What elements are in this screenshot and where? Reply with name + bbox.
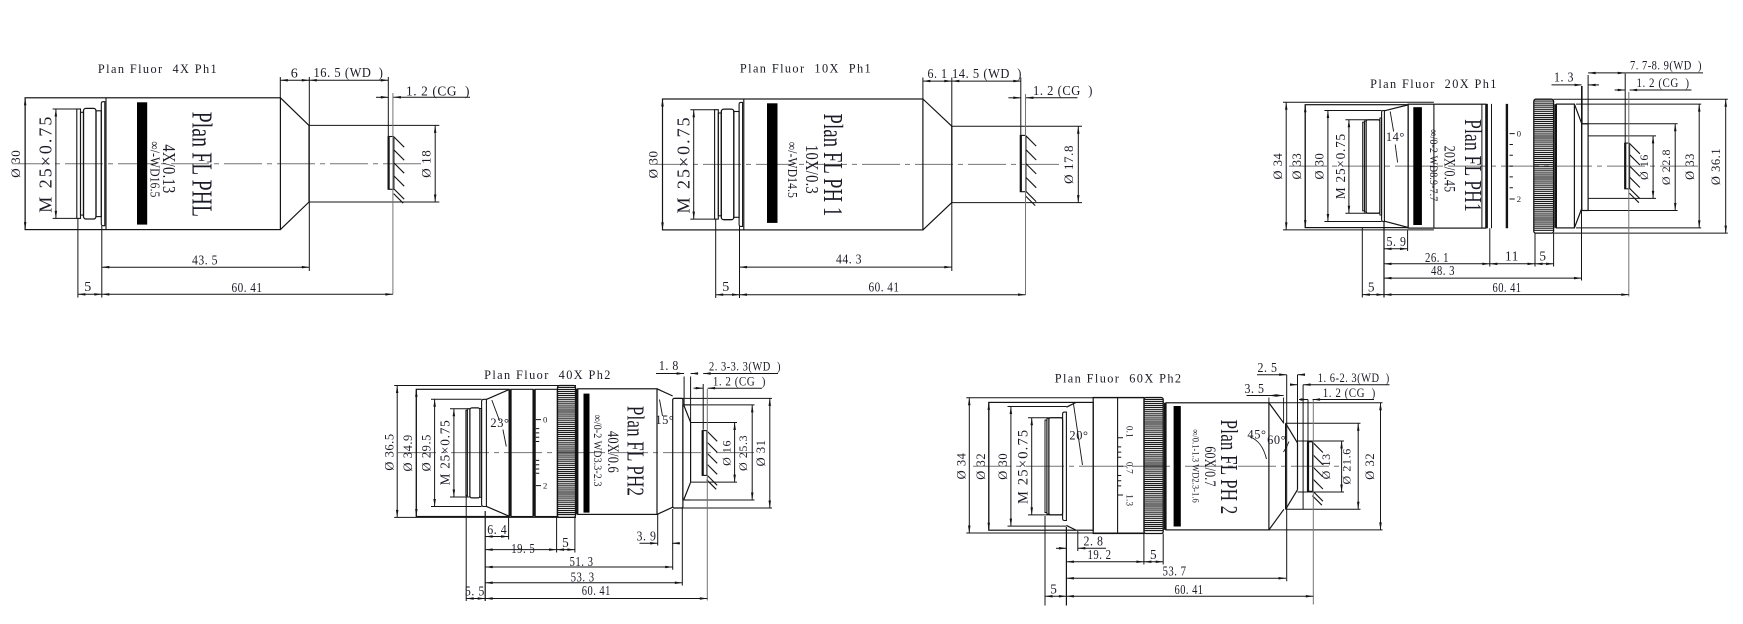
svg-text:5: 5 — [84, 280, 92, 295]
dimension 11 — [1490, 248, 1535, 265]
diameter 36.5 extension lines — [394, 386, 576, 518]
svg-text:43. 5: 43. 5 — [192, 254, 218, 269]
svg-text:Ø 34: Ø 34 — [955, 453, 969, 480]
svg-text:Plan FL PH1: Plan FL PH1 — [1459, 119, 1487, 212]
20 degree label and leader — [1069, 404, 1088, 465]
15 degree front cone — [657, 389, 673, 515]
cover glass extension gray 60X — [1312, 399, 1314, 605]
svg-text:∞/0-2 WD3.3-2.3: ∞/0-2 WD3.3-2.3 — [591, 415, 604, 487]
svg-text:19. 5: 19. 5 — [511, 541, 535, 556]
front lens diameter extension lines — [309, 125, 439, 202]
dimension 3.5 — [1245, 381, 1284, 423]
diameter 34 dimension — [1271, 102, 1287, 230]
centerline 4X — [12, 163, 425, 165]
svg-text:Ø 17.8: Ø 17.8 — [1061, 145, 1076, 184]
svg-text:60. 41: 60. 41 — [232, 281, 263, 296]
svg-text:Plan FL PH2: Plan FL PH2 — [622, 406, 647, 496]
svg-text:1. 8: 1. 8 — [659, 358, 679, 373]
dimension 60.41 20X — [1384, 280, 1629, 296]
diameter 32 dimension front — [1363, 403, 1382, 530]
svg-text:60°: 60° — [1267, 433, 1286, 447]
svg-text:1. 3: 1. 3 — [1554, 70, 1574, 85]
40X front barrel — [578, 389, 657, 515]
svg-text:5. 5: 5. 5 — [465, 584, 485, 599]
15 degree label and leader — [655, 400, 674, 428]
svg-text:Plan Fluor 60X Ph2: Plan Fluor 60X Ph2 — [1055, 371, 1183, 385]
svg-text:3. 9: 3. 9 — [637, 529, 657, 544]
svg-text:Ø 30: Ø 30 — [8, 150, 23, 178]
diameter 33 front dimension — [1683, 104, 1701, 228]
diameter 22.8 extension lines — [1582, 124, 1678, 211]
40X tip face — [690, 423, 692, 483]
svg-text:Ø 21.6: Ø 21.6 — [1340, 448, 1354, 484]
barrel inner face line 10X — [743, 99, 745, 230]
cover glass 10X — [1020, 135, 1022, 191]
cap face long extension 60X — [1286, 375, 1288, 582]
svg-text:7. 7-8. 9(WD ): 7. 7-8. 9(WD ) — [1630, 59, 1702, 73]
dimension 6.1 taper length — [923, 67, 952, 82]
dimension 14.5 WD — [952, 66, 1022, 82]
svg-text:M 25×0.75: M 25×0.75 — [36, 115, 56, 213]
svg-text:11: 11 — [1505, 248, 1519, 263]
svg-text:60. 41: 60. 41 — [1175, 582, 1204, 597]
diameter 34 extension lines — [1283, 102, 1434, 230]
scale section 40X — [535, 389, 557, 516]
mounting flange ring — [739, 102, 743, 226]
thread rings 40X — [466, 408, 482, 498]
dimension 60.41 40X — [485, 583, 707, 600]
20X rear barrel body — [1305, 105, 1408, 228]
front lens diameter extension lines 10X — [952, 126, 1082, 202]
tip extension 40X — [690, 377, 692, 423]
dimension 5 thread length 10X — [716, 220, 740, 299]
svg-text:Plan FL PH 2: Plan FL PH 2 — [1215, 420, 1240, 515]
dimension 19.5 — [485, 541, 556, 556]
extension verticals bottom 20X — [1362, 222, 1553, 298]
svg-text:20X/0.45: 20X/0.45 — [1440, 146, 1457, 193]
svg-text:40X/0.6: 40X/0.6 — [603, 431, 621, 473]
centerline 20X — [1289, 165, 1699, 167]
svg-text:Ø 30: Ø 30 — [1313, 153, 1327, 180]
svg-text:Plan Fluor 10X Ph1: Plan Fluor 10X Ph1 — [740, 62, 872, 76]
10X main barrel body — [663, 99, 923, 230]
dimension 7.7-8.9 WD — [1588, 59, 1703, 75]
svg-text:Ø 30: Ø 30 — [996, 453, 1010, 480]
cover glass extension line gray 10X — [1025, 94, 1027, 295]
dimension 5 knurl 40X — [557, 535, 575, 551]
thread rear step ring — [77, 109, 84, 218]
20X color code band — [1413, 107, 1422, 225]
thread knurled locking ring — [84, 108, 97, 219]
svg-text:45°: 45° — [1247, 427, 1266, 441]
centerline 60X — [973, 465, 1345, 467]
dimension 1.2 CG 20X — [1615, 76, 1692, 91]
cap rear extension 40X — [683, 377, 685, 405]
diameter 21.6 dimension — [1340, 423, 1360, 509]
4X nose front face — [308, 125, 310, 202]
diameter 33 front extension lines — [1576, 104, 1701, 228]
dimension 6 taper length — [280, 66, 309, 81]
M25x0.75 thread extension lines — [690, 110, 715, 219]
20X nose tip cylinder — [1582, 124, 1588, 211]
svg-text:Ø 33: Ø 33 — [1683, 153, 1697, 180]
svg-text:19. 2: 19. 2 — [1088, 547, 1112, 562]
dimension 5 knurl 60X — [1144, 547, 1163, 563]
thread front ring — [96, 111, 101, 217]
centerline 10X — [650, 163, 1062, 165]
svg-text:5: 5 — [562, 535, 569, 550]
20X front barrel section — [1556, 104, 1574, 228]
60X tip face — [1297, 443, 1299, 490]
diameter 30 dimension 20X — [1313, 111, 1330, 222]
diameter 29.5 extension lines — [431, 399, 482, 506]
svg-text:Ø 22.8: Ø 22.8 — [1659, 149, 1673, 185]
svg-text:0: 0 — [543, 415, 548, 425]
svg-text:Ø 25.3: Ø 25.3 — [736, 435, 750, 471]
svg-text:4X/0.13: 4X/0.13 — [159, 144, 180, 193]
mid barrel step line — [1433, 104, 1435, 228]
60 degree cone — [1286, 423, 1298, 509]
shoulder extension line — [279, 77, 281, 98]
diameter 25.3 dimension — [736, 405, 753, 500]
svg-text:2: 2 — [1517, 194, 1522, 204]
diameter 21.6 extension lines — [1286, 423, 1361, 509]
dimension 5 rear 60X — [1045, 582, 1066, 598]
dimension 48.3 — [1384, 263, 1582, 279]
20X mid barrel — [1408, 104, 1486, 228]
front lens dia 16 extension lines — [1588, 136, 1656, 199]
knurled focus ring 20X — [1534, 99, 1554, 233]
diameter 25.3 extension lines — [684, 405, 755, 500]
svg-text:2. 3-3. 3(WD ): 2. 3-3. 3(WD ) — [709, 360, 781, 374]
knurled focus ring 40X — [558, 386, 576, 518]
working distance extension line — [387, 77, 389, 136]
svg-text:1. 2 (CG ): 1. 2 (CG ) — [406, 84, 470, 99]
dimension 2.5 — [1257, 360, 1305, 376]
flange ring 40X — [482, 399, 487, 506]
svg-text:Ø 16: Ø 16 — [719, 440, 733, 466]
svg-text:2: 2 — [543, 481, 548, 491]
svg-text:6: 6 — [291, 66, 299, 81]
svg-text:5: 5 — [1150, 547, 1157, 562]
dimension 6.4 — [485, 522, 508, 538]
svg-text:M 25×0.75: M 25×0.75 — [673, 115, 693, 213]
svg-text:Ø 29.5: Ø 29.5 — [419, 434, 433, 471]
svg-text:0: 0 — [1517, 129, 1522, 139]
CG left extension 40X — [702, 384, 704, 430]
M25x0.75 dimension — [36, 109, 58, 218]
10X nose front face — [951, 126, 953, 202]
dimension 5 knurl — [1535, 248, 1554, 265]
svg-text:Ø 32: Ø 32 — [1363, 453, 1377, 480]
40X collar section — [511, 389, 533, 516]
dimension 44.3 — [740, 227, 952, 299]
diameter 30 dimension 60X — [996, 407, 1012, 527]
60X mid barrel sections — [1093, 398, 1144, 534]
cover glass 60X — [1307, 442, 1309, 492]
diameter 36.1 dimension — [1709, 99, 1727, 233]
diameter 17.8 dimension — [1061, 126, 1079, 202]
extension verticals bottom 60X — [1045, 516, 1163, 606]
thread rear step ring — [715, 110, 722, 219]
svg-text:Ø 34.9: Ø 34.9 — [401, 434, 415, 471]
svg-text:Ø 36.5: Ø 36.5 — [382, 433, 396, 470]
dimension 1.8 — [656, 358, 698, 375]
diameter 30 dimension 10X — [646, 99, 664, 230]
M25x0.75 dimension — [673, 110, 695, 219]
diameter 16 dimension 40X — [719, 423, 736, 483]
60X front barrel — [1166, 403, 1269, 530]
M25 dimension 20X — [1333, 120, 1380, 213]
svg-text:60. 41: 60. 41 — [869, 281, 900, 296]
svg-text:1. 6-2. 3(WD ): 1. 6-2. 3(WD ) — [1318, 371, 1390, 385]
diameter 34.9 dimension — [401, 389, 418, 516]
dimension 1.2 CG 40X — [694, 375, 766, 390]
thread rings 60X — [1045, 418, 1063, 515]
svg-text:3. 5: 3. 5 — [1245, 381, 1265, 396]
14 degree expansion cone — [1384, 105, 1408, 227]
dimension 16.5 WD — [309, 65, 388, 82]
dimension 1.2 CG 60X — [1299, 386, 1376, 401]
cover glass extension gray 40X — [706, 389, 708, 601]
diameter 31 extension lines — [675, 398, 772, 508]
60X rear barrel — [989, 402, 1093, 530]
40X rear barrel — [416, 389, 509, 516]
diameter 16 dimension — [1637, 136, 1654, 199]
diameter 18 dimension — [418, 125, 436, 202]
dimension 53.7 — [1066, 563, 1286, 579]
svg-text:5: 5 — [1539, 248, 1546, 263]
svg-text:M 25×0.75: M 25×0.75 — [1016, 429, 1032, 504]
svg-text:16. 5 (WD ): 16. 5 (WD ) — [314, 65, 384, 80]
dimension 2.3-3.3 WD — [703, 360, 781, 375]
dimension 2.8 — [1056, 533, 1106, 549]
cone end boundary 40X — [509, 389, 511, 516]
svg-text:60. 41: 60. 41 — [1493, 280, 1522, 295]
svg-text:5: 5 — [1050, 582, 1057, 597]
nose tip extension line 10X — [951, 78, 953, 272]
knurl front boundary 40X — [576, 389, 578, 515]
diameter 32 dimension rear — [974, 402, 990, 530]
shoulder extension line 10X — [922, 78, 924, 100]
diameter 32 extension lines front — [1269, 403, 1383, 530]
45 degree label and arc — [1247, 427, 1266, 459]
correction collar scale labels — [543, 415, 548, 491]
svg-text:Ø 33: Ø 33 — [1290, 153, 1304, 180]
front lens dia 13 extension lines — [1298, 441, 1345, 492]
dimension 1.6-2.3 WD — [1290, 371, 1390, 386]
working distance right extension 60X — [1302, 385, 1304, 510]
CG left extension 60X — [1307, 400, 1309, 442]
23 degree expansion cone — [486, 390, 509, 517]
diameter 30 dimension — [8, 98, 26, 230]
svg-text:Ø 32: Ø 32 — [974, 453, 988, 480]
correction collar scale ticks — [1510, 134, 1515, 199]
dimension 43.5 — [102, 226, 309, 298]
cover glass extension gray 20X — [1628, 92, 1630, 297]
diameter 22.8 dimension — [1659, 124, 1677, 211]
dimension 1.2 CG 10X — [1008, 83, 1093, 99]
svg-text:Ø 18: Ø 18 — [418, 150, 433, 178]
svg-text:∞/-WD14.5: ∞/-WD14.5 — [785, 142, 800, 198]
diameter 36.1 extension lines — [1554, 99, 1728, 233]
40X front cap — [683, 405, 691, 500]
svg-text:M 25×0.75: M 25×0.75 — [1333, 133, 1348, 199]
dimension 1.2 CG — [376, 84, 470, 99]
dimension 60.41 parfocal — [102, 281, 393, 296]
barrel inner face line — [105, 98, 107, 230]
svg-text:0.7: 0.7 — [1124, 462, 1134, 474]
svg-text:1. 2 (CG ): 1. 2 (CG ) — [1323, 386, 1376, 400]
svg-text:Plan Fluor 40X Ph2: Plan Fluor 40X Ph2 — [484, 368, 612, 382]
svg-text:Ø 36.1: Ø 36.1 — [1709, 148, 1723, 185]
svg-text:6. 1: 6. 1 — [928, 67, 948, 82]
svg-text:60. 41: 60. 41 — [582, 583, 611, 598]
extension verticals bottom 40X — [466, 496, 682, 601]
14 degree label and leader — [1386, 112, 1405, 163]
svg-text:23°: 23° — [490, 416, 509, 430]
long extension nose 20X — [1581, 86, 1583, 281]
M25 dimension 60X — [1016, 418, 1063, 515]
flange ring 60X — [1063, 412, 1067, 520]
dimension 53.3 — [485, 569, 682, 584]
svg-text:1. 2 (CG ): 1. 2 (CG ) — [713, 375, 766, 389]
svg-text:Ø 31: Ø 31 — [754, 439, 768, 466]
diameter 13 dimension — [1319, 441, 1343, 492]
correction collar scale labels — [1124, 426, 1134, 507]
svg-text:Plan Fluor 20X Ph1: Plan Fluor 20X Ph1 — [1370, 77, 1498, 91]
diameter 34 extension lines 60X — [966, 398, 1144, 533]
diameter 34 dimension 60X — [955, 398, 971, 533]
dimension 60.41 parfocal 10X — [740, 281, 1026, 296]
60X color code band — [1174, 406, 1181, 527]
M25x0.75 thread extension lines — [53, 109, 78, 218]
front lens dia 16 extension lines 40X — [691, 423, 737, 483]
dimension 19.2 — [1066, 547, 1144, 563]
svg-text:5: 5 — [722, 280, 730, 295]
thread knurled locking ring — [721, 109, 734, 220]
dimension 5 rear 20X — [1362, 279, 1384, 296]
45 degree chamfer — [1269, 403, 1284, 530]
diameter 36.5 dimension — [382, 386, 398, 518]
40X color code band — [584, 394, 590, 513]
20X front chamfer cone — [1574, 104, 1581, 228]
4X nose taper cone — [280, 98, 309, 230]
CG left extension 20X — [1624, 74, 1626, 144]
svg-text:5. 9: 5. 9 — [1387, 234, 1407, 249]
knurl front boundary 60X — [1164, 403, 1166, 530]
svg-text:5: 5 — [1368, 279, 1375, 294]
svg-text:Plan Fluor 4X Ph1: Plan Fluor 4X Ph1 — [98, 62, 218, 76]
correction collar scale ticks — [1118, 438, 1123, 495]
correction collar scale ticks — [536, 420, 541, 486]
svg-text:15°: 15° — [655, 413, 674, 427]
diameter 33 dimension rear — [1290, 105, 1306, 228]
nose tip extension line — [308, 77, 310, 271]
diameter 29.5 dimension — [419, 399, 436, 506]
cover glass 20X — [1624, 143, 1626, 189]
4X main barrel body — [25, 98, 280, 230]
23 degree label and leader — [490, 400, 509, 447]
cover glass 40X — [702, 431, 704, 476]
dimension 51.3 — [485, 554, 673, 569]
10X color code band — [767, 103, 778, 223]
flange ring 20X — [1382, 111, 1385, 222]
tip face extension 20X — [1587, 75, 1589, 124]
svg-text:14°: 14° — [1386, 130, 1405, 144]
svg-text:1. 2 (CG ): 1. 2 (CG ) — [1033, 83, 1093, 98]
diameter 31 nose section — [673, 398, 683, 508]
svg-text:44. 3: 44. 3 — [836, 252, 862, 267]
svg-text:0.1: 0.1 — [1124, 426, 1134, 438]
thread rings 20X — [1363, 118, 1382, 215]
dimension 1.3 — [1552, 70, 1600, 123]
dimension 5.5 — [465, 584, 485, 600]
svg-text:14. 5 (WD ): 14. 5 (WD ) — [952, 66, 1022, 81]
svg-text:Ø 30: Ø 30 — [646, 150, 661, 178]
diameter 30 extension lines 20X — [1324, 111, 1381, 222]
20 degree expansion cone — [1066, 403, 1075, 530]
dimension 3.9 — [637, 529, 681, 545]
centerline 40X — [398, 452, 760, 454]
tip face extension 60X — [1297, 375, 1299, 443]
dimension 26.1 — [1384, 250, 1490, 265]
cover glass extension line gray — [392, 93, 394, 294]
svg-text:48. 3: 48. 3 — [1431, 263, 1455, 278]
svg-text:M 25×0.75: M 25×0.75 — [438, 419, 453, 485]
10X nose taper cone — [923, 99, 952, 230]
svg-text:2. 5: 2. 5 — [1258, 360, 1278, 375]
working distance extension line 10X — [1020, 78, 1022, 136]
collar boundary 40X — [533, 389, 535, 516]
collar boundary rings 20X — [1482, 104, 1507, 228]
4X color code band — [137, 102, 147, 224]
cap rear face 60X — [1285, 423, 1287, 509]
diameter 30 extension lines 60X — [1008, 407, 1067, 527]
svg-text:51. 3: 51. 3 — [570, 554, 594, 569]
svg-text:Plan FL PH 1: Plan FL PH 1 — [817, 114, 848, 217]
svg-text:6. 4: 6. 4 — [487, 522, 507, 537]
svg-text:1.3: 1.3 — [1124, 494, 1134, 506]
svg-text:Ø 34: Ø 34 — [1271, 153, 1285, 180]
thread front ring — [734, 112, 739, 218]
svg-text:53. 7: 53. 7 — [1163, 563, 1187, 578]
knurled focus ring 60X — [1144, 398, 1163, 534]
knurl front boundary 20X — [1554, 104, 1556, 228]
cover glass 4X — [388, 137, 390, 190]
svg-text:1. 2 (CG ): 1. 2 (CG ) — [1637, 76, 1690, 90]
svg-text:Plan FL PHL: Plan FL PHL — [186, 112, 217, 217]
diameter 31 dimension — [754, 398, 771, 508]
correction collar scale labels — [1517, 129, 1522, 204]
dimension 60.41 60X — [1066, 582, 1313, 598]
svg-text:∞/0-2 WD8.9-7.7: ∞/0-2 WD8.9-7.7 — [1427, 129, 1440, 201]
60 degree label and leader — [1267, 433, 1289, 452]
dimension 5.9 — [1384, 231, 1408, 252]
M25 dimension 40X — [438, 409, 470, 497]
dimension 5 thread length — [78, 219, 102, 298]
mounting flange ring — [101, 102, 105, 226]
